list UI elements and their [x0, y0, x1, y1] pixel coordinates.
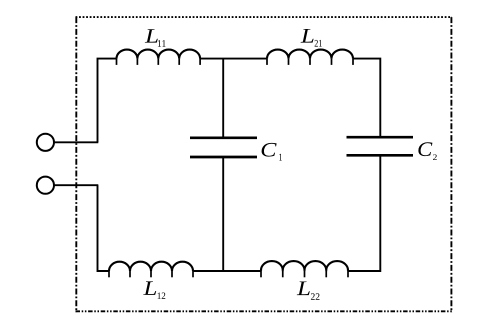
wire: top rail between L11 and L21 (through node A)	[200, 58, 267, 60]
inductor L12	[109, 262, 193, 278]
wire: left vertical up to top rail	[98, 59, 117, 143]
inductor L11	[117, 50, 201, 65]
wire: C2 bottom plate down to bottom-right corner of rail	[353, 155, 380, 271]
wire: top rail from L21 to top-right corner, down to C2	[353, 59, 380, 138]
label L21	[301, 29, 322, 47]
terminal P1 (top input port circle)	[37, 134, 54, 151]
capacitor C1	[190, 138, 257, 157]
capacitor C2	[347, 137, 414, 155]
label C1	[262, 143, 282, 161]
wire: terminal P1 to left node	[54, 141, 98, 143]
enclosure border (dash-dot box)	[76, 17, 453, 312]
wire: node A vertical from top rail down to C1 top plate	[222, 59, 224, 138]
wire: bottom rail stub between L22 corner and C2 leg	[348, 270, 381, 272]
inductor L22	[261, 261, 348, 277]
wire: left vertical down to bottom rail	[98, 185, 110, 271]
label L12	[143, 281, 165, 299]
label L11	[145, 29, 166, 47]
terminal P2 (bottom input port circle)	[37, 177, 54, 194]
wire: bottom rail between L12 and L22 (through node B)	[193, 270, 261, 272]
wire: terminal P2 to left node	[54, 184, 98, 186]
wire: C1 bottom plate down to bottom rail (node B)	[222, 157, 224, 271]
label C2	[418, 142, 436, 160]
label L22	[297, 282, 320, 300]
inductor L21	[267, 50, 353, 65]
